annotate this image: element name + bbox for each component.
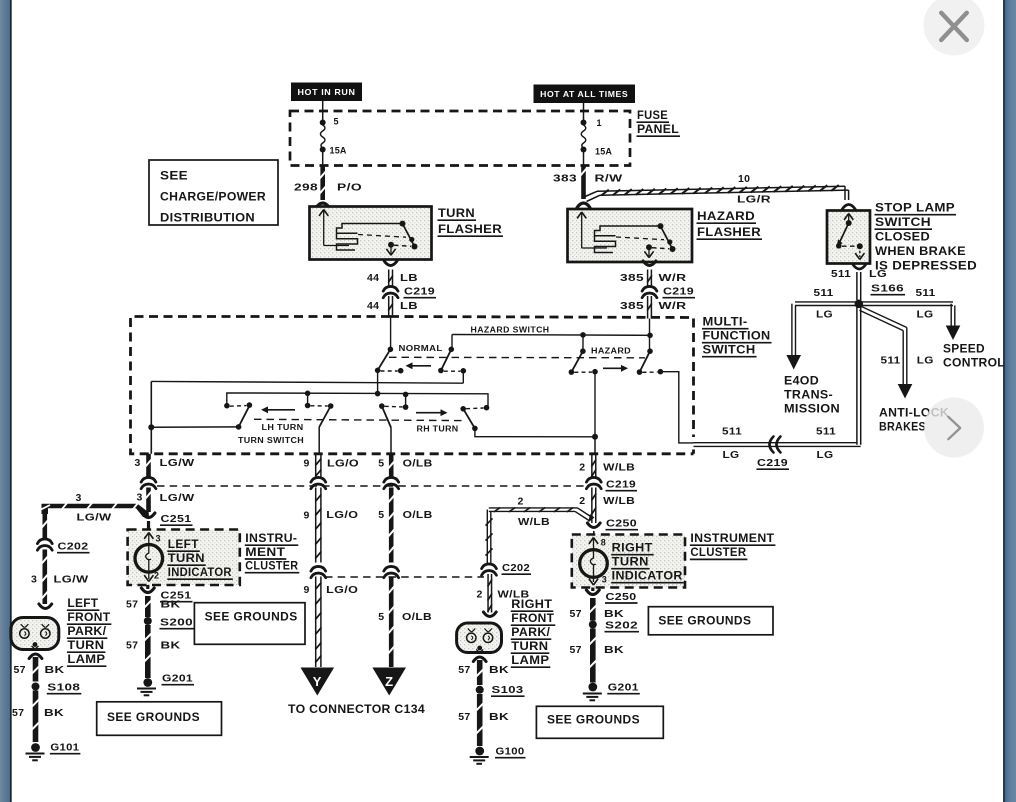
svg-text:511: 511: [814, 287, 834, 299]
svg-text:CLUSTER: CLUSTER: [245, 561, 298, 573]
svg-text:385: 385: [620, 300, 644, 312]
wire 383 R/W: [581, 166, 586, 200]
svg-text:CONTROL: CONTROL: [943, 358, 1005, 370]
RH turn arrow: [416, 412, 444, 414]
svg-text:LAMP: LAMP: [67, 654, 105, 666]
svg-text:8: 8: [601, 538, 606, 548]
svg-text:LG/O: LG/O: [326, 584, 358, 596]
svg-text:FRONT: FRONT: [511, 613, 554, 625]
svg-text:HOT IN RUN: HOT IN RUN: [298, 88, 356, 97]
svg-text:3: 3: [137, 492, 143, 504]
svg-text:O/LB: O/LB: [402, 611, 432, 623]
wire 385 W/R flasher output: [643, 261, 656, 266]
svg-text:511: 511: [816, 426, 836, 438]
see grounds note (bottom right): [536, 706, 663, 738]
svg-text:BK: BK: [161, 640, 181, 652]
svg-text:57: 57: [570, 644, 582, 656]
wire 57 BK (left indicator to S200): [145, 596, 151, 617]
wire 57 BK (right indicator to S202): [590, 598, 596, 621]
svg-text:RIGHT: RIGHT: [612, 543, 653, 555]
svg-text:INSTRU-: INSTRU-: [245, 533, 297, 545]
connector Y to C134 (LG/O): [301, 668, 335, 696]
svg-text:STOP LAMP: STOP LAMP: [875, 203, 955, 215]
svg-text:SEE GROUNDS: SEE GROUNDS: [107, 712, 200, 724]
wire 44 LB flasher output: [384, 261, 397, 266]
svg-text:57: 57: [458, 664, 470, 676]
branch wire 3 LG/W to left lamp: [42, 504, 149, 517]
svg-text:LG: LG: [917, 355, 934, 367]
svg-text:W/R: W/R: [659, 272, 687, 284]
svg-text:57: 57: [126, 599, 138, 611]
svg-text:2: 2: [477, 589, 483, 601]
svg-text:BK: BK: [161, 599, 181, 611]
svg-text:FLASHER: FLASHER: [438, 222, 502, 236]
svg-text:C250: C250: [606, 591, 637, 603]
wire 385 W/R inside switch: [649, 319, 651, 352]
svg-text:3: 3: [31, 574, 37, 586]
turn switch common rail: [227, 393, 488, 408]
wire 57 BK (S202 to G201): [590, 629, 596, 683]
svg-text:HOT AT ALL TIMES: HOT AT ALL TIMES: [540, 90, 628, 99]
svg-text:383: 383: [553, 173, 577, 185]
svg-text:5: 5: [378, 458, 384, 470]
ground G100: [475, 747, 484, 756]
multi-function switch dashed box: [131, 317, 694, 454]
hazard flasher U2: [568, 209, 693, 262]
svg-text:MISSION: MISSION: [784, 404, 840, 416]
RH turn contact: [484, 405, 490, 411]
svg-text:TURN: TURN: [168, 553, 205, 565]
connector C219 dashed line: [157, 485, 588, 487]
svg-text:BK: BK: [489, 711, 509, 723]
svg-text:5: 5: [378, 611, 384, 623]
svg-text:FLASHER: FLASHER: [697, 225, 761, 239]
see grounds note (right middle): [648, 607, 773, 635]
wire LG/W inside switch: [150, 381, 152, 453]
SEE CHARGE/POWER DISTRIBUTION note box: [149, 160, 278, 225]
wire 57 BK (lamp to S108): [29, 654, 42, 659]
svg-text:10: 10: [738, 173, 750, 185]
svg-text:SWITCH: SWITCH: [875, 217, 931, 229]
svg-text:CLUSTER: CLUSTER: [690, 547, 746, 559]
svg-text:O/LB: O/LB: [403, 509, 433, 521]
svg-text:9: 9: [304, 510, 310, 522]
svg-text:TRANS-: TRANS-: [784, 390, 833, 402]
svg-text:C202: C202: [502, 562, 530, 574]
splice S108: [32, 683, 40, 691]
connector C251 upper: [142, 513, 155, 518]
svg-text:2: 2: [518, 496, 524, 508]
svg-text:57: 57: [12, 707, 24, 719]
connector C202 on branch W/LB: [482, 564, 497, 569]
left turn indicator (instrument cluster): [128, 530, 240, 586]
LG/O pickup contact: [307, 393, 309, 405]
svg-text:G201: G201: [162, 673, 193, 685]
splice S200: [144, 617, 152, 625]
fuse 1 (15A) right: [581, 120, 587, 126]
svg-text:SPEED: SPEED: [943, 344, 985, 356]
wire 57 BK (S103 to G100): [477, 694, 483, 746]
svg-text:S103: S103: [492, 684, 524, 696]
svg-text:C219: C219: [606, 479, 636, 491]
svg-text:511: 511: [831, 268, 851, 280]
svg-text:15A: 15A: [330, 146, 347, 156]
connector C219 on 511 wire: [770, 437, 774, 453]
normal contact 1: [388, 347, 394, 353]
wire 57 BK (lamp to S103): [473, 657, 486, 662]
svg-text:TURN: TURN: [612, 557, 649, 569]
svg-text:FUNCTION: FUNCTION: [703, 331, 771, 343]
svg-text:LB: LB: [400, 300, 418, 312]
svg-text:NORMAL: NORMAL: [399, 344, 443, 353]
svg-text:TURN: TURN: [511, 641, 548, 653]
svg-text:511: 511: [916, 287, 936, 299]
svg-text:IS DEPRESSED: IS DEPRESSED: [875, 261, 977, 273]
wire 5 O/LB: [389, 454, 394, 478]
LH turn contact: [224, 403, 230, 409]
connector Z to C134 (O/LB): [372, 668, 406, 696]
turn switch mechanical link dashed line lower: [254, 419, 466, 420]
svg-text:5: 5: [334, 117, 339, 127]
wire 511 LG to anti-lock brakes: [862, 307, 907, 328]
wire 10 LG/R to stop lamp switch: [597, 186, 845, 191]
ground G201 right: [588, 683, 597, 692]
right front park/turn lamp: [483, 612, 496, 617]
O/LB pickup contact: [405, 394, 407, 407]
right turn indicator (instrument cluster): [572, 535, 685, 588]
svg-text:C219: C219: [663, 286, 694, 298]
svg-text:CHARGE/POWER: CHARGE/POWER: [160, 190, 266, 204]
wire 57 BK (S108 to G101): [33, 691, 39, 743]
svg-text:LG/O: LG/O: [327, 458, 359, 470]
hazard switch rail: [452, 334, 650, 337]
svg-text:C250: C250: [606, 518, 637, 530]
svg-text:PARK/: PARK/: [67, 626, 107, 638]
svg-text:9: 9: [304, 584, 310, 596]
stop lamp switch: [842, 205, 855, 210]
wire 511 LG to E4OD transmission: [795, 301, 856, 303]
svg-text:LAMP: LAMP: [511, 655, 549, 667]
wire from HOT AT ALL TIMES into fuse panel: [583, 103, 585, 122]
svg-text:3: 3: [156, 534, 161, 544]
svg-text:LG: LG: [723, 449, 740, 461]
svg-text:57: 57: [126, 640, 138, 652]
svg-text:511: 511: [722, 426, 742, 438]
svg-text:CLOSED: CLOSED: [875, 232, 930, 244]
svg-text:P/O: P/O: [337, 182, 362, 194]
svg-text:C251: C251: [161, 513, 192, 525]
svg-text:W/LB: W/LB: [603, 495, 635, 507]
svg-text:W/R: W/R: [659, 300, 687, 312]
svg-text:BK: BK: [604, 608, 624, 620]
svg-text:44: 44: [367, 300, 379, 312]
svg-text:W/LB: W/LB: [603, 462, 635, 474]
wire 9 LG/O: [315, 454, 317, 478]
right blue sidebar: [1005, 0, 1016, 802]
HOT IN RUN tag: [291, 83, 362, 102]
svg-text:RIGHT: RIGHT: [511, 599, 552, 611]
svg-text:LG/W: LG/W: [160, 492, 195, 504]
svg-text:TURN SWITCH: TURN SWITCH: [238, 436, 304, 445]
svg-text:TURN: TURN: [67, 640, 104, 652]
svg-text:3: 3: [135, 457, 141, 469]
svg-text:LG: LG: [816, 309, 833, 321]
svg-text:O/LB: O/LB: [403, 458, 433, 470]
connector C202 on LG/O: [311, 566, 326, 571]
next page chevron button: [924, 398, 984, 458]
wire 57 BK (S200 to G201): [145, 625, 151, 678]
svg-text:385: 385: [620, 272, 644, 284]
svg-text:C202: C202: [58, 541, 89, 553]
close button: [924, 0, 985, 56]
svg-text:INDICATOR: INDICATOR: [612, 571, 683, 583]
svg-text:9: 9: [304, 458, 310, 470]
hazard contact 2: [647, 348, 653, 354]
svg-text:PANEL: PANEL: [637, 124, 679, 136]
svg-text:S200: S200: [160, 617, 193, 629]
wire from HOT IN RUN into fuse panel: [322, 101, 324, 122]
svg-text:E4OD: E4OD: [784, 376, 819, 388]
svg-text:LG/R: LG/R: [737, 194, 771, 206]
turn flasher U1: [310, 207, 432, 260]
svg-text:1: 1: [597, 118, 602, 128]
HOT AT ALL TIMES tag: [534, 85, 636, 104]
svg-text:TURN: TURN: [438, 206, 475, 220]
svg-text:HAZARD SWITCH: HAZARD SWITCH: [471, 326, 550, 335]
svg-text:INDICATOR: INDICATOR: [168, 567, 232, 579]
connector C250 upper: [587, 523, 600, 528]
svg-text:BK: BK: [604, 644, 624, 656]
see grounds note (bottom left): [97, 702, 222, 736]
svg-text:LH TURN: LH TURN: [262, 423, 304, 432]
svg-text:BK: BK: [489, 664, 509, 676]
svg-text:57: 57: [570, 608, 582, 620]
wire 44 LB inside switch: [390, 317, 392, 350]
svg-text:LEFT: LEFT: [67, 598, 98, 610]
svg-text:Y: Y: [313, 674, 322, 689]
wire 3 LG/W: [146, 454, 151, 478]
svg-text:MENT: MENT: [245, 547, 285, 559]
svg-text:Z: Z: [385, 674, 393, 689]
splice S103: [476, 686, 484, 694]
ground G201 left: [143, 678, 152, 687]
svg-text:S166: S166: [871, 283, 904, 295]
svg-text:SWITCH: SWITCH: [703, 345, 756, 357]
wire 298 P/O: [320, 166, 325, 201]
svg-text:RH TURN: RH TURN: [417, 425, 459, 434]
svg-text:2: 2: [579, 462, 585, 474]
fuse panel dashed box: [290, 111, 630, 166]
svg-text:INSTRUMENT: INSTRUMENT: [690, 533, 774, 545]
svg-text:511: 511: [881, 355, 901, 367]
svg-text:C219: C219: [404, 286, 435, 298]
normal arrow: [409, 365, 431, 367]
svg-text:HAZARD: HAZARD: [697, 209, 755, 223]
fuse 5 (15A) left: [320, 120, 326, 126]
svg-text:G201: G201: [608, 682, 639, 694]
svg-text:PARK/: PARK/: [511, 627, 551, 639]
connector C202 on O/LB: [384, 566, 399, 571]
svg-text:15A: 15A: [595, 147, 612, 157]
wire 511 LG below stop lamp switch: [856, 272, 858, 300]
svg-text:LG/O: LG/O: [326, 509, 358, 521]
connector C202 dashed line: [325, 576, 484, 578]
svg-text:W/LB: W/LB: [518, 516, 550, 528]
svg-text:R/W: R/W: [595, 173, 623, 185]
svg-text:S202: S202: [605, 620, 638, 632]
svg-text:SEE GROUNDS: SEE GROUNDS: [205, 612, 298, 624]
ground G101: [31, 743, 40, 752]
svg-text:LEFT: LEFT: [168, 539, 199, 551]
svg-text:HAZARD: HAZARD: [591, 346, 631, 355]
svg-text:LG/W: LG/W: [77, 512, 112, 524]
svg-text:LG: LG: [869, 268, 887, 280]
svg-text:SEE GROUNDS: SEE GROUNDS: [547, 715, 640, 727]
svg-text:2: 2: [154, 571, 159, 581]
svg-text:LG/W: LG/W: [54, 574, 89, 586]
see grounds note (center): [194, 603, 305, 645]
connector C251 lower: [146, 585, 149, 589]
svg-text:LG/W: LG/W: [160, 457, 195, 469]
svg-text:WHEN BRAKE: WHEN BRAKE: [875, 246, 966, 258]
svg-text:G100: G100: [496, 746, 525, 758]
splice S202: [589, 621, 597, 629]
LH turn arrow: [265, 409, 296, 411]
svg-text:BK: BK: [44, 707, 64, 719]
svg-text:LG: LG: [917, 309, 934, 321]
svg-text:S108: S108: [47, 682, 80, 694]
svg-text:298: 298: [294, 182, 318, 194]
svg-text:LB: LB: [400, 272, 418, 284]
svg-text:SEE GROUNDS: SEE GROUNDS: [658, 616, 751, 628]
svg-text:BRAKES: BRAKES: [879, 422, 926, 434]
svg-text:C219: C219: [757, 457, 788, 469]
feed rail to turn switch poles: [151, 381, 463, 383]
svg-text:FUSE: FUSE: [637, 110, 668, 122]
svg-text:44: 44: [367, 272, 379, 284]
hazard contact 1: [582, 335, 584, 351]
left blue sidebar: [0, 0, 10, 802]
svg-text:MULTI-: MULTI-: [703, 317, 748, 329]
svg-text:DISTRIBUTION: DISTRIBUTION: [160, 211, 255, 225]
connector C202 left: [37, 539, 52, 544]
svg-text:FRONT: FRONT: [67, 612, 110, 624]
svg-text:3: 3: [76, 492, 82, 504]
svg-text:2: 2: [579, 495, 585, 507]
svg-text:LG: LG: [817, 449, 834, 461]
switch mechanical link dashed line upper: [389, 356, 645, 359]
svg-text:57: 57: [458, 711, 470, 723]
hazard arrow: [603, 367, 625, 369]
wire 511 LG to speed control: [862, 301, 953, 303]
wire 511 LG from multi-function switch to S166: [856, 306, 858, 445]
wire 2 W/LB: [591, 454, 593, 478]
branch wire 2 W/LB to right lamp: [489, 507, 578, 509]
svg-text:BK: BK: [45, 664, 65, 676]
svg-text:TO CONNECTOR C134: TO CONNECTOR C134: [288, 702, 425, 716]
normal contact 2: [449, 347, 455, 353]
svg-text:3: 3: [602, 575, 607, 585]
connector C250 lower: [591, 588, 594, 592]
svg-text:G101: G101: [50, 742, 79, 754]
svg-text:SEE: SEE: [160, 169, 188, 183]
svg-text:57: 57: [14, 664, 26, 676]
left front park/turn lamp: [39, 604, 52, 609]
svg-text:5: 5: [378, 509, 384, 521]
